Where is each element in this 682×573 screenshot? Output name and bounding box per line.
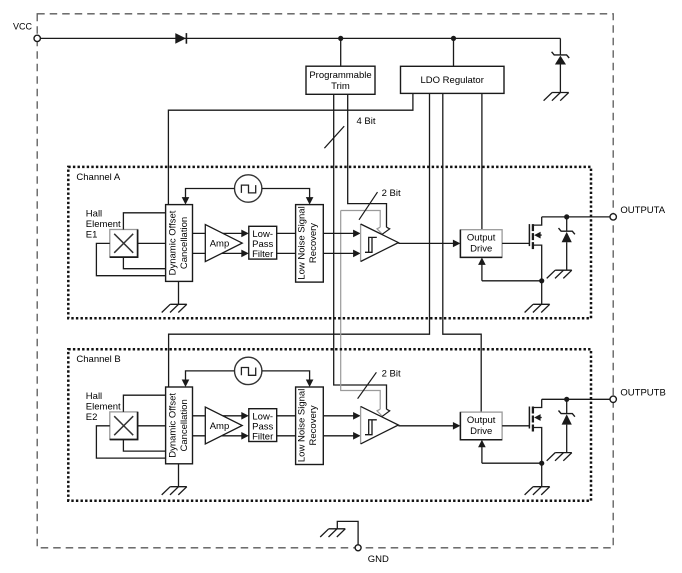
wire DOC A to ground xyxy=(178,281,180,304)
wire Output Drive B to gate xyxy=(502,425,529,427)
junction dot at Trim supply xyxy=(338,36,343,41)
svg-text:Channel A: Channel A xyxy=(76,172,121,183)
wire rail to LDO Regulator xyxy=(453,38,455,66)
ground below supply zener xyxy=(544,93,569,101)
svg-text:Low Noise Signal: Low Noise Signal xyxy=(297,206,308,279)
svg-text:Hall: Hall xyxy=(86,209,102,220)
wire LPF B to LNSR lower xyxy=(277,435,296,437)
wire hall E2 top to DOC xyxy=(123,395,165,412)
svg-text:Dynamic Offset: Dynamic Offset xyxy=(167,393,178,458)
hall element E2 box xyxy=(110,412,138,440)
wire source feedback B xyxy=(482,462,542,464)
ground below clamp zener A xyxy=(547,270,572,278)
block Programmable Trim xyxy=(306,66,375,94)
block Dynamic Offset Cancellation B xyxy=(166,387,193,464)
bus slash 4 Bit xyxy=(324,126,344,148)
junction dot source A xyxy=(539,278,544,283)
wire rail to supply zener xyxy=(559,38,561,55)
wire LDO to DOC A supply xyxy=(168,93,413,204)
wire LPF B to LNSR upper xyxy=(277,415,296,417)
wire hall E1 left around to DOC xyxy=(96,243,165,275)
output MOSFET A xyxy=(528,224,530,246)
wire LNSR A to comparator lower xyxy=(323,252,354,254)
svg-text:2 Bit: 2 Bit xyxy=(382,369,401,380)
block Low Noise Signal Recovery A xyxy=(296,205,324,283)
bus slash 2 Bit channel A xyxy=(359,192,378,220)
arrow into LPF B upper xyxy=(241,412,249,420)
wire output rail to clamp zener A xyxy=(566,217,568,231)
block Dynamic Offset Cancellation A xyxy=(166,205,193,282)
wire LPF A to LNSR lower xyxy=(277,252,296,254)
wire source A to ground xyxy=(541,281,543,305)
wire LNSR B to comparator lower xyxy=(323,435,354,437)
comparator A with hysteresis xyxy=(361,224,399,262)
svg-text:4 Bit: 4 Bit xyxy=(357,116,376,127)
svg-text:VCC: VCC xyxy=(13,22,33,32)
bus slash 2 Bit channel B xyxy=(358,372,377,398)
wire Trim 2-bit bus to comparator A xyxy=(348,94,387,227)
svg-text:Recovery: Recovery xyxy=(308,405,319,445)
output terminal OUTPUTA xyxy=(610,214,616,220)
wire comparator A to Output Drive xyxy=(398,242,453,244)
wire hall E1 right to DOC xyxy=(138,242,166,244)
wire hall E1 bottom to DOC xyxy=(123,257,165,269)
svg-text:Trim: Trim xyxy=(331,81,350,92)
wire output rail to clamp zener B xyxy=(566,399,568,413)
wire hall E2 bottom to DOC xyxy=(123,440,165,452)
wire Output Drive A to gate xyxy=(502,242,529,244)
reverse-protection diode D1 xyxy=(175,33,186,44)
arrow into LPF B lower xyxy=(241,432,249,440)
wire oscillator A to LNSR xyxy=(262,189,310,199)
gray shadow of trim busses xyxy=(341,211,381,410)
wire drain rail A xyxy=(542,216,610,218)
svg-text:Recovery: Recovery xyxy=(308,223,319,263)
svg-text:Element: Element xyxy=(86,219,121,230)
VCC terminal pin xyxy=(34,35,40,41)
junction dot source B xyxy=(539,461,544,466)
block LDO Regulator xyxy=(401,66,505,93)
wire drain rail B xyxy=(542,398,610,400)
output terminal OUTPUTB xyxy=(610,396,616,402)
svg-text:2 Bit: 2 Bit xyxy=(382,188,401,199)
svg-text:Programmable: Programmable xyxy=(309,70,371,81)
channel B dotted border xyxy=(68,349,591,500)
svg-text:OUTPUTB: OUTPUTB xyxy=(620,387,665,398)
junction dot drain rail A xyxy=(564,214,569,219)
svg-text:Filter: Filter xyxy=(252,432,273,443)
wire source feedback A xyxy=(482,280,542,282)
block Low Noise Signal Recovery B xyxy=(296,387,324,465)
wire LDO to Output Drive B supply xyxy=(443,93,481,412)
channel A dotted border xyxy=(68,167,591,318)
svg-text:Drive: Drive xyxy=(470,426,492,437)
svg-text:Cancellation: Cancellation xyxy=(179,399,190,451)
amp B triangle xyxy=(205,407,242,444)
wire Trim 4-bit bus down to channel B xyxy=(334,94,387,409)
amp A triangle xyxy=(205,225,242,262)
wire DOC A upper output xyxy=(193,232,243,234)
zener clamp diode B xyxy=(559,411,575,417)
wire DOC B to ground xyxy=(178,464,180,487)
wire oscillator A to DOC xyxy=(186,189,235,199)
svg-text:Channel B: Channel B xyxy=(76,354,120,365)
svg-text:Hall: Hall xyxy=(86,391,102,402)
wire DOC B upper output xyxy=(193,415,243,417)
zener diode supply clamp xyxy=(552,52,570,58)
GND terminal pin xyxy=(355,545,361,551)
wire LNSR B to comparator upper xyxy=(323,415,354,417)
wire comparator B to Output Drive xyxy=(398,425,453,427)
wire LDO to Output Drive A supply xyxy=(481,93,483,229)
wire rail to Programmable Trim xyxy=(340,38,342,66)
outer dashed border of IC xyxy=(37,14,613,548)
svg-text:Amp: Amp xyxy=(210,238,230,249)
block Output Drive B xyxy=(460,412,502,440)
hall element E1 box xyxy=(110,230,138,258)
ground below DOC B xyxy=(162,487,187,495)
svg-text:LDO Regulator: LDO Regulator xyxy=(421,75,484,86)
arrow into LPF A upper xyxy=(241,230,249,238)
wire LPF A to LNSR upper xyxy=(277,232,296,234)
arrow into LPF A lower xyxy=(241,250,249,258)
comparator B with hysteresis xyxy=(361,406,399,444)
svg-text:Low Noise Signal: Low Noise Signal xyxy=(297,389,308,462)
ground below source A xyxy=(525,304,550,312)
svg-text:Filter: Filter xyxy=(252,249,273,260)
wire oscillator B to LNSR xyxy=(262,371,310,381)
wire VCC rail xyxy=(40,37,560,39)
wire hall E1 top to DOC xyxy=(123,213,165,230)
svg-text:Amp: Amp xyxy=(210,421,230,432)
output MOSFET B xyxy=(528,407,530,429)
wire DOC A lower output xyxy=(193,252,243,254)
block Low-Pass Filter B xyxy=(249,409,277,442)
svg-text:GND: GND xyxy=(368,554,389,565)
svg-text:Element: Element xyxy=(86,401,121,412)
svg-text:Output: Output xyxy=(467,415,496,426)
svg-text:Cancellation: Cancellation xyxy=(179,217,190,269)
ground below clamp zener B xyxy=(547,453,572,461)
svg-text:Output: Output xyxy=(467,233,496,244)
ground symbol at GND xyxy=(320,529,345,537)
junction dot at LDO supply xyxy=(451,36,456,41)
wire GND lead xyxy=(337,521,358,544)
ground below DOC A xyxy=(162,304,187,312)
wire LNSR A to comparator upper xyxy=(323,232,354,234)
svg-text:OUTPUTA: OUTPUTA xyxy=(620,205,665,216)
wire source B to ground xyxy=(541,463,543,487)
wire LDO to DOC B supply xyxy=(169,93,430,387)
wire DOC B lower output xyxy=(193,435,243,437)
ground below source B xyxy=(525,487,550,495)
chopper oscillator B xyxy=(235,357,262,384)
bus arrowhead into comparator B xyxy=(377,409,382,416)
svg-text:E1: E1 xyxy=(86,230,98,241)
zener clamp diode A xyxy=(559,228,575,234)
block Output Drive A xyxy=(460,230,502,258)
svg-text:Drive: Drive xyxy=(470,244,492,255)
junction dot drain rail B xyxy=(564,397,569,402)
svg-text:Dynamic Offset: Dynamic Offset xyxy=(167,210,178,275)
svg-text:E2: E2 xyxy=(86,412,98,423)
bus arrowhead into comparator A xyxy=(377,227,382,234)
block Low-Pass Filter A xyxy=(249,226,277,259)
chopper oscillator A xyxy=(235,175,262,202)
wire hall E2 right to DOC xyxy=(138,425,166,427)
wire hall E2 left around to DOC xyxy=(96,426,165,458)
wire oscillator B to DOC xyxy=(186,371,235,381)
